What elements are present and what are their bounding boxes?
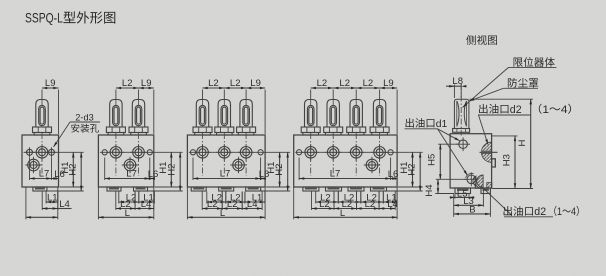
outlet d2 upper hatched wedge top side view [482,142,492,151]
right foot side view [481,188,490,194]
label dust cover [508,78,538,88]
dimension B side view [454,189,491,217]
scan noise overlay [0,0,1,1]
small boss right edge side view [492,159,496,167]
extension line fitting cl unit3 [245,90,247,100]
leader limiter body [463,67,557,107]
center mark fitting unit4 [310,100,312,106]
extension feet bottom unit3 [261,190,291,192]
extension line fitting cl unit3 [202,90,204,100]
dimension H2 unit2 [167,152,182,191]
mounting hole unit1 [25,147,35,157]
outlet port 3 unit4 [348,144,364,160]
overall length dimension unit2 [98,188,153,220]
bottom dimension row1 unit1 [46,192,58,204]
extension line fitting cl unit4 [379,90,381,100]
outlet d1 upper side view [456,137,470,151]
label outlet d2 bottom [504,206,547,218]
mounting hole unit4 [297,150,302,155]
center mark fitting unit2 [138,100,140,106]
callout text mounting hole [71,124,99,133]
centerline d2 port side view [480,151,498,153]
centerline fitting unit1 [41,133,43,176]
dimension L7/L6 unit2 [105,158,159,181]
dimension L3 side view [454,189,484,217]
dimension H2 unit1 [68,152,83,191]
leader dust cover [469,88,538,101]
grease fitting 1 unit3 [193,100,212,136]
center mark fitting unit2 [115,100,117,106]
dimension H side view [517,99,532,188]
dimension H2 unit3 [274,152,289,191]
lower outlet port unit2 [122,157,138,173]
mounting foot 3 unit4 [348,187,364,191]
centerline fitting unit3 [202,133,204,176]
bottom dimension row1 unit2 [119,192,155,204]
center mark fitting unit3 [202,100,204,106]
dimension H2 unit4 [407,152,422,191]
mounting hole unit1 [47,147,57,157]
distributor body unit2 [98,135,153,187]
ports centerline unit2 [100,151,183,153]
extension line body right unit4 [396,90,398,135]
centerline fitting unit4 [379,133,381,176]
distributor body unit3 [187,135,265,187]
outlet d1 lower side view [464,172,478,186]
leader outlet d2 bottom [481,186,553,217]
side view label [466,35,497,45]
overall length dimension unit1 [26,188,58,220]
outlet port 3 unit3 [238,144,254,160]
centerline fitting unit4 [310,133,312,176]
dimension H1 unit3 [266,152,281,187]
callout 2-d3 mounting holes [54,113,101,148]
grease fitting 2 unit3 [215,100,234,136]
mounting hole unit3 [190,150,195,155]
label outlet d2 top parens [539,104,571,116]
grease fitting 2 unit4 [324,100,343,136]
center mark fitting unit3 [223,100,225,106]
outlet port 2 unit4 [325,144,341,160]
mounting foot 3 unit3 [246,187,261,191]
center mark fitting unit4 [355,100,357,106]
mounting foot 4 unit4 [371,187,387,191]
bottom dimension row2 unit3 [202,192,262,211]
outlet port 2 unit3 [216,144,232,160]
outlet port 2 unit2 [130,144,146,160]
grease fitting 3 unit4 [347,100,366,136]
top dimension chain unit1 [42,78,59,89]
extension line body right unit1 [58,90,60,135]
dimension L7/L6 unit3 [193,158,269,181]
mounting foot 2 unit3 [219,187,234,191]
centerline fitting unit2 [138,133,140,176]
extension line fitting cl unit2 [138,90,140,100]
extension line fitting cl unit2 [115,90,117,100]
outlet d2 lower hatched piece 1 side view [475,183,483,188]
grease fitting 1 unit2 [106,100,125,136]
extension line fitting cl unit4 [310,90,312,100]
center mark fitting unit4 [332,100,334,106]
mounting foot 1 unit4 [303,187,319,191]
top dimension chain unit2 [116,78,154,89]
mounting foot 2 unit4 [326,187,342,191]
lower outlet port unit3 [230,157,246,173]
dimension H1 unit1 [60,152,75,187]
ports centerline unit1 [24,151,84,153]
extension body bottom unit1 [60,186,84,188]
bottom dimension row1 unit3 [207,192,265,204]
center mark fitting unit3 [245,100,247,106]
leader outlet d2 top [478,115,531,145]
label outlet d2 bottom parens [554,206,579,218]
centerline dust cover [460,84,462,136]
outlet d2 lower hatched piece 2 side view [487,183,492,189]
leader outlet d1 [405,129,468,176]
grease fitting 2 unit2 [129,100,148,136]
outlet port 1 unit1 [34,144,50,160]
outlet port 4 unit4 [371,144,387,160]
dimension L7/L6 unit4 [299,158,398,181]
overall length dimension unit3 [187,188,265,220]
label outlet d2 top [479,104,522,116]
mounting hole unit2 [102,150,107,155]
extension lines left side view [438,143,458,145]
extension line fitting cl unit4 [332,90,334,100]
centerline fitting unit2 [115,133,117,176]
extension feet bottom unit4 [387,190,423,192]
lower outlet port unit4 [364,157,380,173]
label limiter body [514,57,555,67]
title SSPQ-L outline drawing [25,10,63,26]
mounting foot 1 unit1 [33,187,47,191]
outlet port 1 unit4 [303,144,319,160]
extension body bottom unit4 [398,186,423,188]
bottom dimension row2 unit4 [312,192,398,211]
extension lines right side view [469,98,533,100]
bottom dimension row2 unit2 [116,192,154,211]
dimension H3 side view [501,136,516,189]
dimension H1 unit2 [158,152,173,187]
outlet port 1 unit3 [194,144,210,160]
centerline d2 port side view [480,151,498,153]
dust cover (limiter housing) side view [454,99,469,128]
top dimension chain unit4 [311,78,397,89]
dust cover nut side view [453,129,470,133]
bottom dimension row2 unit1 [42,192,71,211]
extension line body right unit2 [153,90,155,135]
grease fitting 1 unit1 [33,100,52,136]
grease fitting 3 unit3 [237,100,256,136]
dimension L7/L6 unit1 [30,158,65,181]
extension body bottom unit2 [155,186,183,188]
side view block body [450,134,492,188]
grease fitting 4 unit4 [370,100,389,136]
ports centerline unit3 [189,151,290,153]
extension feet bottom unit2 [148,190,183,192]
center mark fitting unit4 [379,100,381,106]
extension feet bottom unit1 [47,190,84,192]
mounting hole unit4 [388,150,393,155]
centerline fitting unit3 [245,133,247,176]
dimension H4 side view [424,179,439,196]
centerline fitting unit3 [223,133,225,176]
dimension H1 unit4 [399,152,414,187]
mounting hole unit3 [258,150,263,155]
outlet port 1 unit2 [108,144,124,160]
centerline fitting unit4 [355,133,357,176]
mounting hole unit2 [147,150,152,155]
arc detail lower outlet side view [466,173,474,177]
dimension L5 side view [450,188,474,199]
extension body bottom unit3 [266,186,290,188]
top dimension chain unit3 [203,78,266,89]
centerline fitting unit4 [332,133,334,176]
bottom dimension row1 unit4 [316,192,397,204]
outlet d2 lower (hatched section) side view [477,175,483,188]
extension line body right unit3 [264,90,266,135]
overall length dimension unit4 [294,188,397,220]
distributor body unit4 [294,135,397,187]
distributor body unit1 [22,135,59,187]
dimension L8 side view [446,76,466,98]
extension line fitting cl unit4 [355,90,357,100]
dimension H5 side view [427,144,442,179]
grease fitting 1 unit4 [301,100,320,136]
center mark fitting unit1 [41,100,43,106]
outlet d2 upper hatched wedge bottom side view [482,153,492,162]
ports centerline unit4 [295,151,423,153]
label outlet d1 [406,118,448,130]
left foot side view [455,188,471,194]
mounting foot 1 unit2 [107,187,121,191]
small boss right edge side view [492,159,496,167]
lower outlet port unit1 [25,157,41,173]
extension line fitting cl unit3 [223,90,225,100]
mounting foot 2 unit2 [134,187,148,191]
mounting foot 1 unit3 [191,187,206,191]
extension line fitting cl unit1 [41,90,43,100]
